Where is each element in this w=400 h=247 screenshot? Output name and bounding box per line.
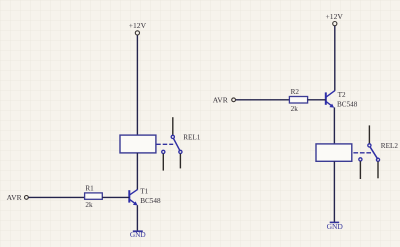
svg-text:T1: T1	[140, 188, 148, 196]
transistor T1	[129, 189, 137, 205]
svg-text:REL1: REL1	[183, 134, 201, 142]
relay coil REL2	[316, 144, 352, 161]
resistor R2	[289, 97, 307, 104]
relay coil REL1	[120, 135, 156, 153]
svg-text:+12V: +12V	[129, 21, 147, 30]
svg-text:BC548: BC548	[337, 100, 358, 108]
switch REL1: top contact	[171, 135, 174, 138]
svg-text:REL2: REL2	[381, 142, 399, 150]
port AVR (right)	[213, 96, 236, 105]
transistor T2	[326, 91, 335, 108]
power port +12V (left)	[129, 21, 147, 35]
power port +12V (right)	[326, 12, 344, 26]
dashed link REL2	[353, 152, 371, 154]
switch REL1: bottom-left contact	[162, 150, 165, 153]
wire relay REL2 to ground	[333, 161, 335, 222]
switch REL2: top stem	[368, 125, 370, 143]
resistor R1	[85, 193, 103, 199]
wire relay REL1 to T1 collector	[136, 153, 138, 190]
switch REL2: bottom-right contact	[376, 158, 379, 161]
switch REL2: bottom-left stem	[359, 161, 361, 179]
svg-text:2k: 2k	[291, 105, 299, 113]
ground GND (left)	[130, 230, 146, 239]
port AVR (left)	[7, 193, 29, 202]
wire AVR to R2	[236, 99, 290, 101]
svg-text:2k: 2k	[85, 201, 93, 209]
svg-text:T2: T2	[338, 91, 346, 99]
switch REL2: blade	[370, 147, 378, 159]
svg-text:GND: GND	[130, 230, 146, 239]
svg-text:GND: GND	[327, 222, 344, 231]
wire R2 to T2 base	[308, 99, 326, 101]
wire R1 to T1 base	[102, 196, 129, 198]
switch REL1: bottom-right stem	[179, 154, 181, 169]
wire +12V to relay REL1	[136, 35, 138, 135]
svg-text:AVR: AVR	[7, 193, 23, 202]
switch REL2: bottom-right stem	[377, 162, 379, 179]
switch REL1: bottom-left stem	[162, 154, 164, 171]
switch REL1: blade	[173, 138, 180, 151]
wire T2 emitter to relay REL2	[333, 107, 335, 143]
wire T1 emitter to ground	[136, 205, 138, 231]
svg-text:R1: R1	[85, 184, 94, 192]
switch REL2: bottom-left contact	[359, 158, 362, 161]
wire AVR to R1	[29, 196, 85, 198]
svg-text:BC548: BC548	[140, 197, 161, 205]
svg-text:AVR: AVR	[213, 96, 229, 105]
switch REL2: top contact	[368, 144, 371, 147]
dashed link REL1	[156, 143, 173, 145]
svg-text:R2: R2	[291, 88, 300, 96]
wire +12V to T2 collector	[334, 26, 336, 91]
switch REL1: bottom-right contact	[179, 150, 182, 153]
ground GND (right)	[327, 222, 344, 231]
switch REL1: top stem	[172, 117, 174, 135]
svg-text:+12V: +12V	[326, 12, 344, 21]
